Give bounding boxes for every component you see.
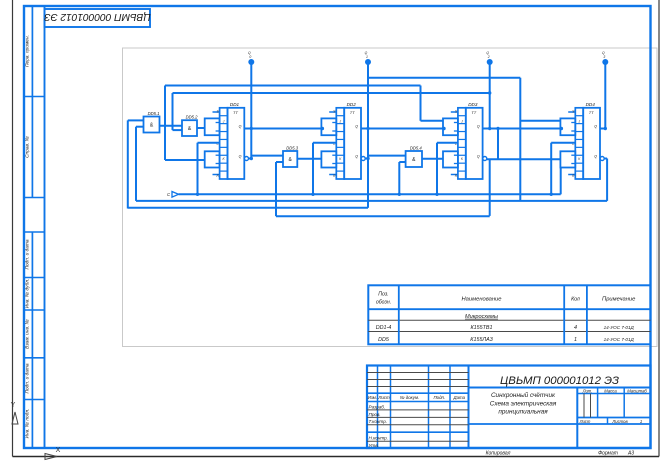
svg-text:Q: Q <box>355 155 358 159</box>
svg-text:Схема электрическая: Схема электрическая <box>490 401 557 408</box>
svg-text:Дата: Дата <box>453 395 466 400</box>
svg-text:ЦВЬМП 000001012 ЭЗ: ЦВЬМП 000001012 ЭЗ <box>44 11 151 22</box>
svg-text:Перв. примен.: Перв. примен. <box>24 35 30 67</box>
svg-text:Инв. № подл.: Инв. № подл. <box>24 409 30 439</box>
svg-text:Лист: Лист <box>579 419 591 424</box>
svg-text:TT: TT <box>471 110 476 115</box>
svg-text:&: & <box>288 157 292 163</box>
svg-text:принципиальная: принципиальная <box>498 409 548 416</box>
svg-text:DD1-4: DD1-4 <box>376 325 392 331</box>
svg-text:Лист: Лист <box>377 395 390 400</box>
svg-text:Q: Q <box>477 155 480 159</box>
svg-text:Микросхемы: Микросхемы <box>465 314 498 320</box>
svg-text:4: 4 <box>574 325 577 331</box>
svg-text:X: X <box>56 447 61 454</box>
svg-text:Q: Q <box>594 155 597 159</box>
svg-text:Инв. № дубл.: Инв. № дубл. <box>24 279 30 309</box>
svg-text:TT: TT <box>233 110 238 115</box>
svg-text:Подп. и дата: Подп. и дата <box>24 363 30 393</box>
svg-text:Н.контр.: Н.контр. <box>369 436 388 441</box>
svg-text:0: 0 <box>249 55 251 59</box>
svg-text:К155ЛА3: К155ЛА3 <box>470 337 492 343</box>
svg-text:3: 3 <box>603 55 605 59</box>
svg-text:А3: А3 <box>627 451 634 457</box>
svg-text:Q: Q <box>594 125 597 129</box>
svg-text:1: 1 <box>640 419 642 424</box>
svg-text:14-УОС 7-01Д: 14-УОС 7-01Д <box>604 325 635 330</box>
svg-text:K: K <box>578 157 581 161</box>
svg-text:Кол: Кол <box>571 297 580 303</box>
svg-text:Изм.: Изм. <box>368 395 377 400</box>
svg-text:№ докум.: № докум. <box>400 395 419 400</box>
svg-text:DD5.1: DD5.1 <box>148 111 160 116</box>
svg-text:DD5.4: DD5.4 <box>410 145 423 150</box>
svg-text:Формат: Формат <box>598 451 618 457</box>
svg-text:&: & <box>412 157 416 163</box>
svg-text:DD5: DD5 <box>378 337 390 343</box>
svg-text:DD5.2: DD5.2 <box>186 115 199 120</box>
svg-text:J: J <box>461 120 463 124</box>
svg-text:Листов: Листов <box>611 419 628 424</box>
svg-text:Подп. и дата: Подп. и дата <box>24 239 30 269</box>
svg-text:K: K <box>461 157 464 161</box>
svg-text:TT: TT <box>589 110 594 115</box>
svg-text:обозн.: обозн. <box>376 300 391 306</box>
svg-text:DD4: DD4 <box>586 102 596 107</box>
svg-text:TT: TT <box>350 110 355 115</box>
svg-text:J: J <box>223 120 225 124</box>
svg-text:DD5.3: DD5.3 <box>286 145 299 150</box>
svg-text:1: 1 <box>366 55 368 59</box>
svg-text:J: J <box>340 120 342 124</box>
svg-text:&: & <box>150 123 154 129</box>
svg-text:14-УОС 7-01Д: 14-УОС 7-01Д <box>604 337 635 342</box>
svg-text:К155ТВ1: К155ТВ1 <box>470 325 492 331</box>
svg-text:Лит.: Лит. <box>582 388 593 393</box>
svg-text:K: K <box>223 157 226 161</box>
svg-text:Справ. №: Справ. № <box>24 136 30 158</box>
svg-text:2: 2 <box>487 55 490 59</box>
svg-text:Q: Q <box>239 155 242 159</box>
svg-text:1: 1 <box>574 337 577 343</box>
svg-text:Разраб.: Разраб. <box>369 404 386 409</box>
svg-text:J: J <box>579 120 581 124</box>
svg-text:ЦВЬМП 000001012 ЭЗ: ЦВЬМП 000001012 ЭЗ <box>500 375 619 387</box>
svg-text:Y: Y <box>11 402 16 409</box>
svg-text:Копировал: Копировал <box>486 451 511 457</box>
svg-text:K: K <box>339 157 342 161</box>
svg-text:Подп.: Подп. <box>433 395 445 400</box>
svg-text:Масштаб: Масштаб <box>627 388 647 393</box>
svg-text:Q: Q <box>477 125 480 129</box>
svg-text:&: & <box>188 126 192 132</box>
svg-text:Утв.: Утв. <box>369 443 379 448</box>
svg-text:Наименование: Наименование <box>461 297 502 303</box>
svg-text:C: C <box>167 192 171 197</box>
svg-text:Масса: Масса <box>604 388 617 393</box>
svg-text:Поз.: Поз. <box>378 292 388 298</box>
svg-text:Q: Q <box>355 125 358 129</box>
svg-text:Синхронный счётчик: Синхронный счётчик <box>491 391 556 399</box>
svg-text:Q: Q <box>239 125 242 129</box>
svg-text:DD1: DD1 <box>230 102 240 107</box>
svg-text:DD3: DD3 <box>468 102 478 107</box>
svg-text:Взам. инв. №: Взам. инв. № <box>24 319 30 349</box>
svg-text:Т.контр.: Т.контр. <box>369 419 388 424</box>
svg-text:Примечание: Примечание <box>602 297 636 303</box>
svg-text:DD2: DD2 <box>347 102 357 107</box>
svg-text:Пров.: Пров. <box>369 412 381 417</box>
